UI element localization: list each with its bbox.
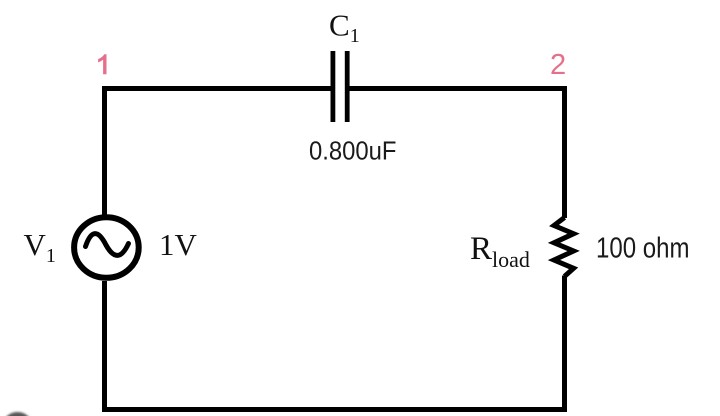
svg-text:2: 2 <box>550 49 566 81</box>
svg-text:100 ohm: 100 ohm <box>596 233 690 265</box>
svg-text:V1: V1 <box>24 227 56 267</box>
svg-text:C1: C1 <box>329 8 360 48</box>
svg-text:1V: 1V <box>159 227 198 262</box>
svg-text:0.800uF: 0.800uF <box>309 136 397 166</box>
svg-text:Rload: Rload <box>470 231 530 272</box>
